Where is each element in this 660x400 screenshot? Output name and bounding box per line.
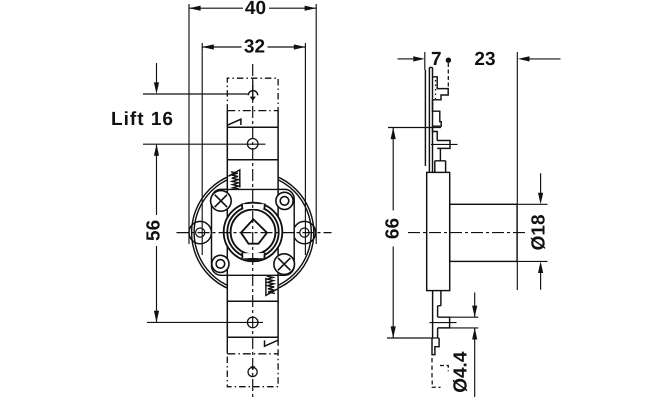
centerlines front view — [177, 64, 332, 398]
arrow 23 (left) — [518, 56, 530, 61]
svg-text:7: 7 — [431, 49, 442, 70]
svg-text:40: 40 — [245, 0, 266, 19]
plate rear edge — [432, 68, 434, 173]
arrow 56 bottom (down) — [154, 311, 159, 323]
upper pin centerline — [431, 143, 458, 145]
bottom solid stubs — [227, 337, 278, 353]
right ear boss — [293, 221, 315, 243]
lift top reference line — [143, 93, 248, 95]
body mask lower — [227, 276, 278, 337]
lower pin — [438, 317, 450, 328]
hidden lower latch (dashed) — [431, 358, 433, 378]
label 40 bg — [243, 1, 269, 15]
svg-text:23: 23 — [474, 49, 495, 70]
dim 32 line — [202, 46, 305, 48]
dim 66 line upper — [392, 128, 394, 211]
bottom hidden body outline (dashed) — [227, 348, 278, 387]
dim o18 bottom ext — [517, 260, 547, 262]
arrow 40 left — [189, 6, 201, 11]
dim 66 line lower — [392, 247, 394, 339]
horizontal centerline — [177, 232, 332, 234]
square mounting plate — [212, 189, 295, 275]
dim 40 line — [189, 7, 316, 9]
dim 32 ext right — [304, 43, 306, 255]
dim 66 bottom ext — [387, 337, 439, 339]
screw bottom-left (hole) — [212, 255, 229, 272]
hidden lower hook corner (dashed) — [440, 366, 448, 372]
bottom chord + filled lens — [242, 258, 264, 260]
dim o4.4 top ext — [450, 316, 479, 318]
right ear hole — [300, 228, 309, 237]
body mask upper — [227, 111, 278, 189]
screw bottom-right (cross) — [274, 254, 295, 275]
arrow 40 right — [305, 6, 317, 11]
upper lift dome arc — [248, 91, 257, 96]
arrow lift top (down) — [154, 82, 159, 94]
bottom hidden boundary dash-dot — [227, 353, 278, 355]
svg-text:Ø18: Ø18 — [528, 214, 549, 250]
upper lever mark — [227, 119, 241, 125]
top hidden boundary dash-dot — [227, 110, 278, 112]
dim 23 ext line (cylinder end) — [516, 52, 518, 204]
screw top-right (hole) — [276, 192, 293, 209]
dim 40 ext left — [188, 4, 190, 244]
dim 7 dot arrowhead — [446, 58, 451, 63]
hidden ext line from dot — [447, 63, 449, 89]
upper latch box top — [227, 126, 278, 128]
dim 40 ext right — [315, 4, 317, 244]
top slot end walls — [242, 204, 265, 210]
lower plate stub 2 — [437, 328, 439, 338]
arrow 56 top (up) — [154, 144, 159, 156]
vertical centerline — [252, 64, 254, 398]
bottom slot white-out — [242, 253, 266, 258]
svg-text:66: 66 — [382, 218, 403, 239]
dim 32 ext left — [201, 43, 203, 255]
dim 7 ext line — [424, 52, 426, 70]
cylinder barrel — [450, 204, 517, 261]
flange front face line — [424, 70, 426, 166]
plate top cap — [429, 67, 432, 69]
dim 56 line lower part — [156, 246, 158, 322]
lower latch hole — [247, 317, 258, 328]
body right edge — [277, 111, 279, 338]
svg-text:56: 56 — [144, 220, 165, 241]
plate front edge — [428, 68, 430, 173]
arrow o4.4 bottom (up) — [472, 328, 477, 340]
rotor (cam disc) — [224, 203, 283, 262]
upper spring (toothed clamp) — [228, 170, 240, 189]
svg-text:Ø4.4: Ø4.4 — [450, 351, 471, 393]
upper latch stepped profile — [433, 77, 449, 141]
lower latch box top — [227, 300, 278, 302]
spindle square hole — [241, 219, 267, 244]
lower lever mark — [265, 340, 279, 346]
lower latch box bottom (body bottom) — [227, 336, 278, 338]
dim o4.4 arrow stems — [474, 293, 476, 398]
flange outer circle — [192, 172, 314, 294]
left ear hole — [196, 228, 205, 237]
upper latch box bottom — [227, 159, 278, 161]
dim o18 top ext — [517, 203, 547, 205]
dim o18 arrow stems — [540, 173, 542, 289]
upper lift arrow — [252, 81, 254, 96]
dim 7 arrow line — [398, 58, 414, 60]
hidden inner line top — [435, 80, 437, 99]
cylinder end lower ext — [516, 261, 518, 290]
arrow o18 bottom (up) — [538, 261, 543, 273]
upper latch hole — [247, 139, 258, 150]
latch position circles — [247, 81, 258, 327]
lower solid step — [432, 338, 439, 355]
arrow 32 left — [202, 44, 214, 49]
lower spring (toothed clamp) — [266, 276, 278, 295]
central housing block — [427, 172, 450, 290]
dim 66 top ext — [388, 127, 441, 129]
upper guide pin — [437, 141, 450, 149]
arrow 66 top (up) — [391, 128, 396, 140]
left ear boss — [189, 221, 211, 243]
flange inner circle — [194, 174, 311, 291]
screw top-left (cross) — [211, 191, 232, 212]
lift bottom reference line — [143, 143, 266, 145]
arrow 66 bottom (down) — [391, 326, 396, 338]
label 32 bg — [242, 40, 268, 54]
svg-text:32: 32 — [244, 36, 265, 57]
arrow 32 right — [294, 44, 306, 49]
top hidden body outline (dashed) — [227, 78, 278, 110]
hidden lower hook circle — [248, 367, 257, 376]
lower pin centerline — [430, 322, 457, 324]
arrow o4.4 top (down) — [472, 306, 477, 318]
screws — [211, 191, 295, 275]
bottom slot end walls — [242, 253, 265, 259]
dim 56 line upper part — [156, 144, 158, 215]
lift top arrow stem — [156, 63, 158, 88]
arrow o18 top (down) — [538, 193, 543, 205]
svg-text:Lift 16: Lift 16 — [111, 109, 174, 130]
body left edge — [226, 111, 228, 338]
upper transition steps — [435, 148, 446, 172]
dim o4.4 bottom ext — [450, 327, 479, 329]
hidden lower end corner (dashed) — [432, 381, 440, 388]
arrow 7 (right) — [413, 56, 425, 61]
hidden lower arrow tip — [250, 366, 255, 370]
lower plate stub wide — [433, 291, 441, 338]
dim 56 bottom reference line — [147, 321, 263, 323]
dim 23 arrow line — [529, 58, 561, 60]
top slot white-out — [242, 204, 265, 209]
cylinder centerline — [408, 232, 528, 234]
